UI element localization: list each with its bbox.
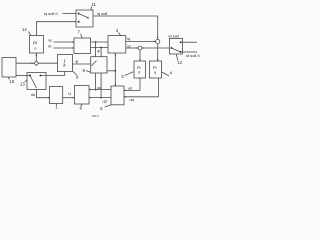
node phi junction [114, 70, 116, 72]
wire U box1 to box6 [63, 97, 75, 99]
label 8 [83, 68, 86, 73]
switch 11 contact dots [78, 13, 89, 23]
wire box8 bottom taps to u wires [95, 73, 97, 90]
box 6 (inverter) [75, 86, 90, 105]
node tap i-alpha [95, 41, 97, 43]
wire diamond to box 9 [39, 62, 58, 64]
svg-text:iq soll II: iq soll II [44, 11, 58, 16]
svg-text:id soll II: id soll II [186, 53, 200, 58]
label id soll [169, 34, 179, 39]
wire iq soll output to summing circle [93, 16, 158, 39]
label iq [127, 37, 130, 41]
box 1 (modulator) [50, 87, 63, 104]
label 9 [76, 75, 79, 80]
wire id soll in [183, 41, 198, 43]
svg-text:dt: dt [63, 64, 66, 68]
node summing circle iq [156, 39, 160, 43]
label U [68, 91, 71, 96]
svg-text:id: id [128, 44, 131, 48]
wire ib [54, 47, 75, 49]
svg-text:d: d [138, 71, 140, 75]
node summing diamond [34, 61, 39, 66]
box 7 (3/2 transform) [74, 38, 91, 54]
box 2 (vector rotator) [108, 36, 126, 54]
svg-text:iq soll: iq soll [97, 11, 107, 16]
wire u-beta box5 to box6 [89, 97, 111, 99]
label iq soll [97, 11, 107, 16]
wire id soll from switch12 to circle [142, 47, 170, 49]
svg-text:uq: uq [130, 98, 134, 102]
label ia [49, 39, 53, 43]
label d-alpha [31, 93, 36, 97]
svg-text:iq: iq [127, 37, 130, 41]
label phi small [97, 49, 100, 53]
svg-text:U: U [68, 91, 71, 96]
label uq [130, 98, 134, 102]
box 8 (flux model) [91, 57, 107, 73]
wire box10 to switch13 contact [16, 74, 30, 76]
integrator box 9 [58, 55, 73, 72]
label u-beta [103, 99, 108, 103]
wire i-beta box7 to box2 [91, 47, 109, 49]
node tap i-beta [100, 47, 102, 49]
svg-text:ud: ud [128, 87, 132, 91]
node summing circle id [138, 46, 142, 50]
svg-text:FIG 1: FIG 1 [92, 114, 99, 118]
wire phi vertical box2 to box5 [114, 53, 116, 86]
wire ud PI d to box5 [124, 78, 140, 90]
wire switch13 right contact to box9 bottom [41, 72, 65, 76]
wire box8 phi out to vertical [107, 70, 115, 72]
wire phi box9 to box8 [73, 63, 91, 65]
wire id soll II in [183, 51, 198, 53]
label 4 [170, 71, 173, 76]
svg-text:q: q [154, 71, 156, 75]
label ud [128, 87, 132, 91]
svg-text:PI: PI [153, 66, 157, 70]
label 11 [92, 2, 97, 7]
wire ia [54, 41, 75, 43]
PI controller 3 (d) [134, 61, 146, 78]
svg-text:14: 14 [22, 27, 27, 32]
wire iq out [126, 41, 156, 43]
svg-text:13: 13 [20, 82, 25, 87]
label 14 [22, 27, 27, 32]
wire taps into box 8 top [95, 42, 97, 57]
label ib [49, 45, 52, 49]
label phi [76, 59, 79, 64]
wire id circle to PI d [139, 50, 141, 61]
label id soll II [186, 53, 200, 58]
svg-text:n: n [35, 47, 37, 51]
wire uq PI q to box5 [124, 78, 158, 97]
svg-text:11: 11 [92, 2, 97, 7]
wire box10 to diamond [16, 62, 34, 64]
wire iq circle to PI q [157, 44, 159, 61]
switch 11 arm [79, 14, 88, 18]
label 3 [121, 74, 124, 79]
svg-text:ib: ib [49, 45, 52, 49]
label 12 [177, 60, 182, 65]
switch 13 [27, 73, 46, 90]
switch 11 [76, 10, 93, 27]
wire switch 11 to PI 14 [37, 22, 77, 36]
wire diamond to PI14 input [35, 53, 37, 61]
box 5 (inverse rotator) [111, 86, 124, 105]
wire id out [126, 47, 138, 49]
label 13 [20, 82, 25, 87]
wire switch13 common to box1 (d-alpha) [37, 90, 50, 98]
label u-alpha [97, 86, 102, 90]
wire u-alpha box5 to box6 [89, 89, 111, 91]
svg-text:PI: PI [137, 66, 141, 70]
svg-text:10: 10 [10, 79, 15, 84]
svg-text:id soll: id soll [169, 34, 179, 39]
label iq soll II [44, 11, 58, 16]
box 10 [2, 58, 16, 78]
svg-text:φ: φ [76, 59, 79, 64]
switch 12 [170, 39, 183, 55]
PI controller 14 [30, 36, 44, 54]
wire i-alpha box7 to box2 [91, 41, 109, 43]
PI controller 4 (q) [150, 61, 162, 78]
svg-text:12: 12 [177, 60, 182, 65]
svg-text:PI: PI [33, 41, 37, 46]
figure caption FIG 1 [92, 114, 99, 118]
wire iq soll II input [63, 13, 77, 15]
label id [128, 44, 131, 48]
